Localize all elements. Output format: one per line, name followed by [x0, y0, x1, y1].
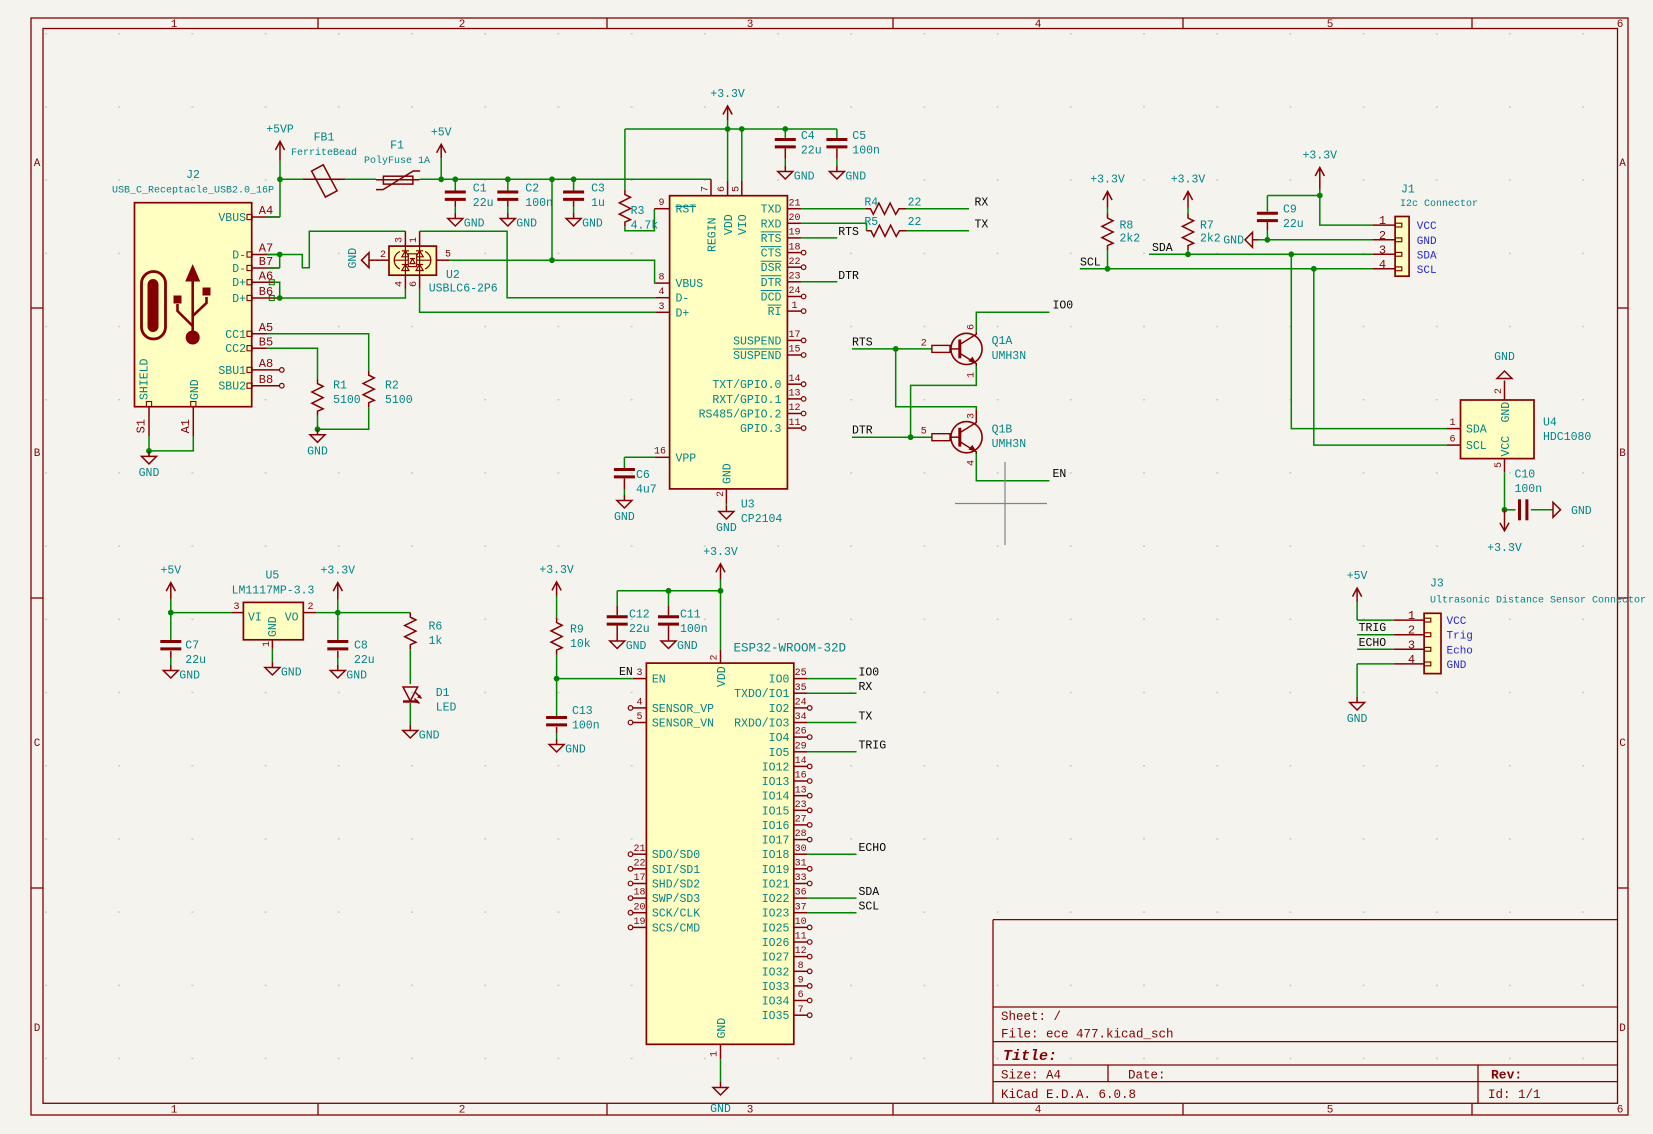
ground GND U1 — [720, 1082, 722, 1088]
svg-text:VPP: VPP — [676, 452, 697, 465]
svg-text:GPIO.3: GPIO.3 — [740, 423, 782, 436]
svg-text:1: 1 — [1379, 214, 1386, 228]
U1 pin 11 IO26 — [794, 941, 808, 943]
svg-text:R2: R2 — [385, 380, 399, 393]
ground GND C8 — [337, 665, 339, 671]
wire SDA — [1149, 253, 1373, 255]
svg-text:RI: RI — [768, 306, 782, 319]
svg-text:R6: R6 — [429, 621, 443, 634]
ground GND U5 — [271, 662, 273, 668]
svg-text:GND: GND — [516, 218, 537, 231]
svg-text:5: 5 — [921, 427, 927, 438]
wire +3.3V rail ESP32 — [617, 590, 720, 592]
svg-text:35: 35 — [795, 683, 807, 694]
svg-text:VCC: VCC — [1417, 221, 1437, 233]
resistor R6 1k — [405, 613, 416, 650]
svg-text:Date:: Date: — [1128, 1069, 1166, 1083]
svg-text:UMH3N: UMH3N — [992, 438, 1027, 451]
U1 pin 27 IO16 — [794, 824, 808, 826]
J3 pin 3 Echo — [1394, 648, 1424, 650]
svg-text:SUSPEND: SUSPEND — [733, 335, 781, 348]
svg-text:C4: C4 — [801, 130, 815, 143]
svg-text:22: 22 — [908, 216, 922, 229]
svg-text:C8: C8 — [354, 640, 368, 653]
U3 pin 9 RST — [654, 208, 669, 210]
svg-text:GND: GND — [710, 1103, 731, 1116]
U1 pin 3 EN — [633, 678, 647, 680]
svg-text:D-: D- — [232, 263, 246, 276]
svg-text:17: 17 — [788, 330, 800, 341]
svg-text:TRIG: TRIG — [859, 740, 887, 753]
svg-text:D: D — [1619, 1023, 1626, 1035]
svg-text:+5V: +5V — [431, 126, 452, 139]
svg-text:IO34: IO34 — [762, 996, 790, 1009]
svg-text:8: 8 — [798, 961, 804, 972]
svg-text:Echo: Echo — [1447, 645, 1473, 657]
ground GND C3 — [573, 213, 575, 219]
svg-text:12: 12 — [795, 946, 807, 957]
wire SDA to U4 — [1291, 254, 1447, 428]
svg-text:33: 33 — [795, 873, 807, 884]
svg-text:6: 6 — [409, 281, 420, 287]
svg-text:4.7k: 4.7k — [631, 220, 659, 233]
svg-text:2: 2 — [1494, 388, 1505, 394]
svg-text:VDD: VDD — [716, 666, 729, 687]
svg-text:HDC1080: HDC1080 — [1543, 431, 1591, 444]
svg-text:FerriteBead: FerriteBead — [291, 147, 357, 159]
USB icon — [142, 272, 166, 340]
svg-text:5: 5 — [1327, 19, 1334, 31]
svg-text:22u: 22u — [1283, 218, 1304, 231]
wire ECHO — [807, 853, 856, 855]
svg-text:2: 2 — [459, 1105, 466, 1117]
U1 pin 31 IO19 — [794, 868, 808, 870]
junction — [1317, 193, 1323, 199]
capacitor C11 100n — [668, 591, 670, 606]
U4 pin 6 SCL — [1447, 444, 1461, 446]
wire RTS stub — [801, 237, 837, 239]
svg-text:Id: 1/1: Id: 1/1 — [1488, 1088, 1541, 1102]
svg-text:29: 29 — [795, 741, 807, 752]
U3 pin 17 SUSPEND — [787, 339, 801, 341]
svg-text:GND: GND — [845, 171, 866, 184]
svg-text:GND: GND — [614, 511, 635, 524]
svg-text:10k: 10k — [570, 638, 591, 651]
svg-text:SDA: SDA — [1417, 250, 1437, 262]
svg-text:5: 5 — [636, 712, 642, 723]
svg-text:+3.3V: +3.3V — [1171, 174, 1206, 187]
junction — [277, 176, 283, 182]
junction — [168, 610, 174, 616]
U5 pin 3 — [231, 612, 243, 614]
svg-text:4: 4 — [1379, 258, 1386, 272]
ground GND J1 (left) — [1253, 239, 1259, 241]
ic U2 USBLC6-2P6 — [389, 246, 436, 275]
svg-text:SCL: SCL — [859, 901, 880, 914]
svg-text:13: 13 — [795, 785, 807, 796]
U1 pin 19 SCS/CMD — [628, 925, 633, 930]
svg-text:34: 34 — [795, 712, 807, 723]
wire +5V to VI — [171, 612, 232, 614]
connector J2 USB_C_Receptacle_USB2.0_16P — [135, 203, 252, 407]
wire rail to VBUS — [551, 179, 553, 260]
U1 pin 26 IO4 — [794, 736, 808, 738]
svg-text:SCK/CLK: SCK/CLK — [652, 908, 700, 921]
svg-text:RTS: RTS — [852, 336, 873, 349]
wire J2 shield to ground — [149, 436, 193, 456]
svg-text:4: 4 — [395, 281, 406, 287]
capacitor C12 22u — [616, 591, 618, 606]
U3 pin 8 VBUS — [656, 282, 670, 284]
svg-text:RST: RST — [676, 204, 697, 217]
U1 pin 29 IO5 — [794, 751, 808, 753]
svg-text:VBUS: VBUS — [676, 278, 704, 291]
svg-text:12: 12 — [788, 403, 800, 414]
svg-text:Q1B: Q1B — [992, 423, 1013, 436]
svg-text:31: 31 — [795, 858, 807, 869]
svg-text:3: 3 — [747, 19, 754, 31]
svg-text:C10: C10 — [1515, 469, 1536, 482]
svg-text:ECHO: ECHO — [1359, 637, 1387, 650]
U1 pin 7 IO35 — [794, 1014, 808, 1016]
svg-text:SCL: SCL — [1466, 440, 1487, 453]
svg-text:17: 17 — [633, 873, 645, 884]
svg-text:IO18: IO18 — [762, 849, 790, 862]
U1 pin 36 IO22 — [794, 897, 808, 899]
svg-text:6: 6 — [717, 186, 728, 192]
svg-text:GND: GND — [1500, 402, 1513, 423]
svg-text:C: C — [34, 738, 41, 750]
svg-text:15: 15 — [788, 345, 800, 356]
J3 pin 4 GND — [1394, 663, 1424, 665]
svg-text:R3: R3 — [631, 205, 645, 218]
svg-text:2: 2 — [459, 19, 466, 31]
svg-text:RTS: RTS — [761, 233, 782, 246]
junction — [908, 434, 914, 440]
svg-text:C2: C2 — [525, 183, 539, 196]
ground GND J3 — [1356, 697, 1358, 703]
svg-text:D1: D1 — [436, 687, 450, 700]
svg-text:B6: B6 — [259, 285, 273, 299]
svg-text:SHIELD: SHIELD — [139, 358, 152, 400]
svg-text:1: 1 — [710, 1051, 721, 1057]
svg-text:+3.3V: +3.3V — [1090, 174, 1125, 187]
svg-text:J2: J2 — [186, 169, 200, 182]
svg-text:VDD: VDD — [723, 214, 736, 235]
resistor R8 2k2 — [1102, 214, 1113, 251]
wire D- from J2 to U2 pin3 — [267, 231, 406, 268]
junction — [549, 257, 555, 263]
svg-text:16: 16 — [795, 771, 807, 782]
junction — [1105, 266, 1111, 272]
U3 pin 20 RXD — [787, 222, 801, 224]
svg-text:13: 13 — [788, 389, 800, 400]
svg-text:GND: GND — [419, 730, 440, 743]
svg-text:SDA: SDA — [859, 886, 880, 899]
junction — [666, 588, 672, 594]
svg-text:GND: GND — [716, 522, 737, 535]
svg-text:9: 9 — [658, 198, 664, 209]
capacitor C3 — [573, 179, 575, 190]
svg-text:3: 3 — [233, 602, 239, 613]
U3 pin 4 D- — [656, 297, 670, 299]
svg-text:RXD: RXD — [761, 218, 782, 231]
svg-text:D: D — [34, 1023, 41, 1035]
svg-text:2: 2 — [1379, 229, 1386, 243]
wire TRIG J3 — [1357, 634, 1394, 636]
svg-text:R5: R5 — [864, 216, 878, 229]
junction — [277, 295, 283, 301]
svg-text:GND: GND — [1223, 234, 1244, 247]
svg-text:ECHO: ECHO — [859, 842, 887, 855]
U1 pin 24 IO2 — [794, 707, 808, 709]
svg-text:IO16: IO16 — [762, 820, 790, 833]
svg-text:GND: GND — [464, 218, 485, 231]
svg-text:1: 1 — [262, 641, 273, 647]
svg-text:U2: U2 — [446, 269, 460, 282]
svg-text:SDI/SD1: SDI/SD1 — [652, 864, 700, 877]
svg-text:D-: D- — [676, 293, 690, 306]
U2 pin 1 — [419, 231, 421, 246]
svg-text:18: 18 — [788, 242, 800, 253]
svg-text:Title:: Title: — [1003, 1048, 1057, 1065]
svg-text:4: 4 — [1035, 19, 1042, 31]
svg-text:IO19: IO19 — [762, 864, 790, 877]
svg-text:27: 27 — [795, 815, 807, 826]
svg-text:LM1117MP-3.3: LM1117MP-3.3 — [232, 585, 315, 598]
svg-text:+3.3V: +3.3V — [1487, 542, 1522, 555]
svg-text:RX: RX — [975, 197, 989, 210]
svg-text:1: 1 — [409, 237, 420, 243]
svg-text:EN: EN — [619, 666, 633, 679]
svg-text:EN: EN — [652, 674, 666, 687]
crosshair marker — [955, 462, 1047, 545]
svg-text:VCC: VCC — [1447, 616, 1467, 628]
svg-text:1: 1 — [171, 1105, 178, 1117]
U3 pin 3 D+ — [656, 311, 670, 313]
ground GND U3 — [725, 506, 727, 512]
svg-text:GND: GND — [1347, 713, 1368, 726]
svg-text:2: 2 — [716, 491, 727, 497]
U5 pin 2 — [303, 612, 316, 614]
svg-text:C9: C9 — [1283, 204, 1297, 217]
resistor R4 22 — [801, 208, 866, 210]
svg-text:+5V: +5V — [160, 565, 181, 578]
power +5V J3 — [1356, 602, 1358, 620]
svg-text:30: 30 — [795, 844, 807, 855]
svg-text:R9: R9 — [570, 624, 584, 637]
wire CC1 — [267, 334, 369, 371]
wire ECHO J3 — [1357, 648, 1394, 650]
svg-text:22u: 22u — [354, 654, 375, 667]
svg-text:VIO: VIO — [737, 214, 750, 235]
svg-text:C7: C7 — [185, 640, 199, 653]
svg-text:100n: 100n — [525, 197, 553, 210]
junction — [505, 176, 511, 182]
U1 pin 20 SCK/CLK — [628, 910, 633, 915]
svg-text:19: 19 — [633, 917, 645, 928]
U1 pin 28 IO17 — [794, 839, 808, 841]
svg-text:CC1: CC1 — [225, 329, 246, 342]
power +3.3V ESP32 — [720, 580, 722, 591]
svg-text:24: 24 — [795, 698, 807, 709]
U2 pin 6 — [419, 275, 421, 289]
svg-text:Ultrasonic Distance Sensor Con: Ultrasonic Distance Sensor Connector — [1430, 595, 1646, 607]
wire VBUS from J2 A4 — [267, 216, 280, 218]
svg-text:IO0: IO0 — [859, 666, 880, 679]
svg-text:RTS: RTS — [838, 226, 859, 239]
resistor R1 5100 — [312, 379, 323, 416]
svg-text:IO0: IO0 — [769, 674, 790, 687]
capacitor C10 100n — [1505, 509, 1516, 511]
svg-text:IO22: IO22 — [762, 893, 790, 906]
svg-text:+3.3V: +3.3V — [539, 564, 574, 577]
svg-text:3: 3 — [1379, 243, 1386, 257]
connector J1 I2c Connector — [1395, 217, 1409, 277]
svg-text:3: 3 — [395, 237, 406, 243]
svg-text:5: 5 — [445, 250, 451, 261]
junction — [554, 676, 560, 682]
svg-text:SDA: SDA — [1152, 242, 1173, 255]
ground GND J2 — [148, 451, 150, 457]
U4 pin 2 GND top — [1504, 381, 1506, 401]
svg-text:REGIN: REGIN — [706, 217, 719, 252]
capacitor C6 4u7 — [624, 457, 655, 468]
U1 pin 13 IO14 — [794, 795, 808, 797]
svg-text:11: 11 — [788, 418, 800, 429]
U1 pin 5 SENSOR_VN — [628, 720, 633, 725]
svg-text:6: 6 — [798, 990, 804, 1001]
svg-text:SBU2: SBU2 — [218, 381, 246, 394]
svg-text:A4: A4 — [259, 204, 273, 218]
svg-text:+3.3V: +3.3V — [710, 88, 745, 101]
ground GND C7 — [170, 665, 172, 671]
svg-text:GND: GND — [794, 171, 815, 184]
svg-text:4: 4 — [636, 698, 642, 709]
svg-text:GND: GND — [582, 218, 603, 231]
ground GND R1 R2 — [317, 429, 319, 435]
svg-text:A: A — [1619, 158, 1626, 170]
svg-text:1: 1 — [171, 19, 178, 31]
svg-text:2: 2 — [921, 338, 927, 349]
power +3.3V R7 — [1187, 208, 1189, 214]
svg-text:R7: R7 — [1200, 220, 1214, 233]
svg-text:UMH3N: UMH3N — [992, 350, 1027, 363]
wire VO rail — [316, 612, 410, 614]
svg-text:+3.3V: +3.3V — [703, 546, 738, 559]
junction — [335, 610, 341, 616]
svg-text:5: 5 — [1327, 1105, 1334, 1117]
svg-text:C: C — [1619, 738, 1626, 750]
svg-text:CTS: CTS — [761, 248, 782, 261]
svg-text:3: 3 — [636, 668, 642, 679]
svg-text:C1: C1 — [473, 183, 487, 196]
ground GND C10 (right) — [1553, 502, 1561, 517]
J3 pin 2 Trig — [1394, 634, 1424, 636]
wire RTS to Q1B collector — [896, 349, 977, 410]
svg-text:2k2: 2k2 — [1200, 233, 1221, 246]
svg-text:IO13: IO13 — [762, 776, 790, 789]
svg-text:GND: GND — [1571, 505, 1592, 518]
svg-text:7: 7 — [701, 186, 712, 192]
junction — [725, 126, 731, 132]
svg-text:A6: A6 — [259, 269, 273, 283]
svg-text:GND: GND — [189, 379, 202, 400]
U1 pin 37 IO23 — [794, 912, 808, 914]
junction — [315, 426, 321, 432]
J2 pin S1 SHIELD — [146, 402, 151, 407]
svg-text:B: B — [34, 448, 41, 460]
fuse F1 PolyFuse 1A — [376, 179, 419, 181]
resistor R7 2k2 — [1182, 214, 1193, 251]
svg-text:SUSPEND: SUSPEND — [733, 350, 781, 363]
svg-text:21: 21 — [788, 198, 800, 209]
U1 pin 35 TXDO/IO1 — [794, 692, 808, 694]
U3 pin 2 GND — [725, 489, 727, 504]
U1 pin 30 IO18 — [794, 853, 808, 855]
svg-text:1k: 1k — [429, 635, 443, 648]
unconnected SBU pins — [280, 368, 285, 373]
U2 pin 3 — [404, 231, 406, 246]
svg-text:100n: 100n — [572, 720, 600, 733]
led D1 — [409, 649, 411, 684]
power +5V — [440, 158, 442, 179]
svg-text:SHD/SD2: SHD/SD2 — [652, 879, 700, 892]
svg-text:100n: 100n — [852, 145, 880, 158]
U1 pin 8 IO32 — [794, 970, 808, 972]
U3 pin 1 RI — [787, 310, 801, 312]
ground GND D1 — [409, 725, 411, 731]
svg-text:2: 2 — [380, 250, 386, 261]
svg-text:A7: A7 — [259, 242, 273, 256]
U3 pin 14 TXT/GPIO.0 — [787, 383, 801, 385]
svg-text:B: B — [1619, 448, 1626, 460]
capacitor C5 100n — [836, 129, 838, 138]
transistor Q1A UMH3N — [951, 333, 982, 364]
wire DTR to Q1B base — [852, 436, 932, 438]
svg-text:R1: R1 — [333, 380, 347, 393]
wire DTR stub — [801, 281, 837, 283]
svg-text:SCL: SCL — [1080, 256, 1101, 269]
U1 pin 23 IO15 — [794, 809, 808, 811]
junction — [893, 346, 899, 352]
U3 pin 19 RTS — [787, 237, 801, 239]
junction — [277, 252, 283, 258]
ic U4 HDC1080 — [1461, 400, 1535, 459]
ic U3 CP2104 — [670, 196, 788, 489]
svg-text:1: 1 — [1408, 609, 1415, 623]
svg-text:SCL: SCL — [1417, 265, 1437, 277]
wire RX — [807, 692, 856, 694]
junction — [438, 176, 444, 182]
svg-text:B7: B7 — [259, 255, 273, 269]
U1 pin 34 RXDO/IO3 — [794, 722, 808, 724]
svg-text:GND: GND — [565, 744, 586, 757]
svg-text:A1: A1 — [179, 419, 193, 433]
svg-text:A: A — [34, 158, 41, 170]
svg-text:LED: LED — [436, 702, 457, 715]
wire Q1A collector to IO0 — [976, 312, 1049, 332]
svg-text:23: 23 — [795, 800, 807, 811]
wire GND J1 — [1258, 239, 1373, 241]
wire U2 pin6 to U3 D+ — [420, 289, 656, 312]
U1 pin 16 IO13 — [794, 780, 808, 782]
capacitor C2 — [507, 179, 509, 190]
svg-text:2: 2 — [307, 602, 313, 613]
U1 pin 6 IO34 — [794, 1000, 808, 1002]
svg-text:24: 24 — [788, 286, 800, 297]
svg-text:IO4: IO4 — [769, 732, 790, 745]
